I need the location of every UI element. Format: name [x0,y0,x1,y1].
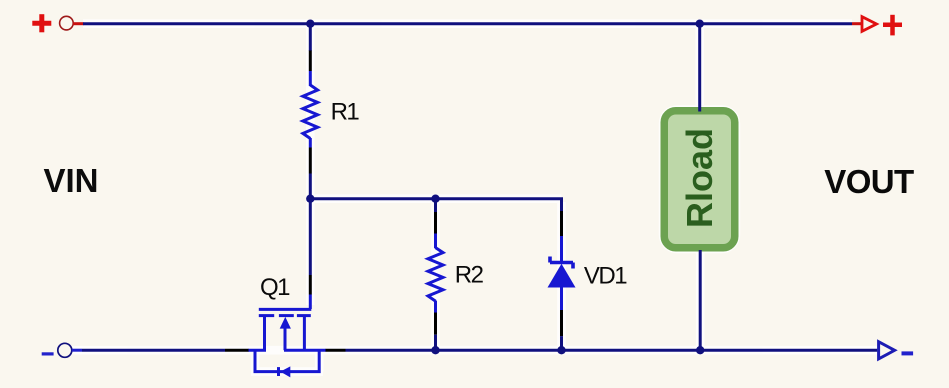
node junction R2 top [431,195,439,203]
node junction R2 bottom [431,346,439,354]
wire halo underlay [72,24,877,372]
node junction top Rload [696,20,704,28]
arrow VOUT- [879,342,895,359]
wire top rail [83,22,852,25]
zener diode VD1 [548,211,576,350]
resistor R1 [303,24,318,199]
terminal VIN- circle [58,343,72,357]
terminal VIN+ circle [60,16,74,30]
svg-text:R1: R1 [331,98,360,125]
svg-text:Q1: Q1 [260,274,290,301]
wire gate vertical [309,199,312,309]
wire Rload top [698,24,701,112]
minus sign VIN- [42,352,54,355]
transistor Q1 [248,309,326,377]
wire red stub VOUT+ [852,22,861,25]
svg-text:VIN: VIN [44,162,99,199]
node junction gate [306,195,314,203]
plus sign VIN+ [32,14,51,32]
svg-text:VOUT: VOUT [824,163,914,200]
svg-text:R2: R2 [455,262,484,289]
svg-text:VD1: VD1 [584,263,627,290]
wire red stub VIN+ [73,22,84,25]
resistor Rload box [664,111,735,248]
resistor R2 [428,199,443,351]
node junction Rload bottom [696,346,704,354]
wire Rload bottom [699,250,702,350]
minus sign VOUT- [902,351,914,355]
wire node rail [310,197,563,200]
svg-text:Rload: Rload [679,128,720,228]
label VIN [44,162,99,199]
node junction VD1 bottom [557,346,565,354]
wire node to VD1 [560,199,563,211]
pin Q1 right [326,349,346,352]
node junction top R1 [306,20,314,28]
plus sign VOUT+ [883,15,902,36]
wire bottom rail right [346,349,878,352]
wire bottom rail left [72,349,82,352]
arrow VOUT+ [862,17,877,32]
pin Q1 left [225,349,249,352]
